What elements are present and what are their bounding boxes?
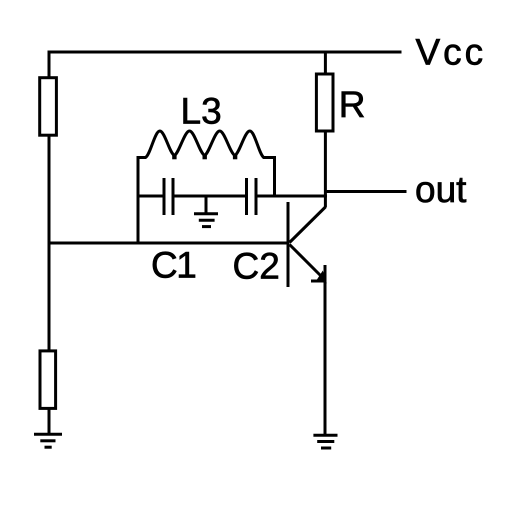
resistor upper-left (bias divider top) xyxy=(40,78,57,136)
ground (left, bottom of divider) xyxy=(34,434,62,447)
node out label xyxy=(415,169,467,210)
svg-text:Vcc: Vcc xyxy=(416,32,487,73)
svg-text:C2: C2 xyxy=(233,246,280,287)
node Vcc label xyxy=(416,32,487,73)
inductor L3 xyxy=(138,131,275,159)
wire: tank left vertical xyxy=(137,156,140,245)
label C1 xyxy=(151,245,195,286)
wire: emitter lead to ground xyxy=(324,265,327,434)
wire: collector lead from R down (node out) xyxy=(324,130,327,208)
transistor Q1 emitter diagonal with arrow xyxy=(290,245,327,284)
wire: left branch to ground xyxy=(48,408,51,435)
svg-text:L3: L3 xyxy=(181,90,222,131)
label C2 xyxy=(233,246,280,287)
wire: base rail (node B) from divider to transistor base xyxy=(49,242,288,245)
wire: left branch middle (resistor to lower resistor) xyxy=(48,134,51,352)
label L3 xyxy=(181,90,222,131)
resistor lower-left (bias divider bottom) xyxy=(40,351,56,409)
label R xyxy=(339,84,366,125)
wire: tank right vertical xyxy=(273,156,276,198)
transistor Q1 base bar xyxy=(287,202,290,287)
resistor R (collector load) xyxy=(316,74,333,131)
wire: tank rail between C1 and C2 xyxy=(175,195,246,198)
capacitor C1 xyxy=(164,178,173,215)
svg-text:R: R xyxy=(339,84,366,125)
wire: left branch upper stub xyxy=(48,51,51,80)
wire: out lead xyxy=(324,190,407,193)
capacitor C2 xyxy=(247,178,257,215)
transistor Q1 collector diagonal xyxy=(290,207,326,243)
wire: tank top rail segment left of C1 xyxy=(137,195,163,198)
svg-text:C1: C1 xyxy=(151,245,195,286)
wire: right branch Vcc stub to R xyxy=(324,52,327,75)
svg-text:out: out xyxy=(415,169,467,210)
ground (emitter) xyxy=(313,435,337,448)
wire: tank rail right of C2 to collector node xyxy=(258,195,327,198)
ground (tank centre tap) xyxy=(194,196,218,227)
wire: top Vcc rail xyxy=(48,51,402,54)
